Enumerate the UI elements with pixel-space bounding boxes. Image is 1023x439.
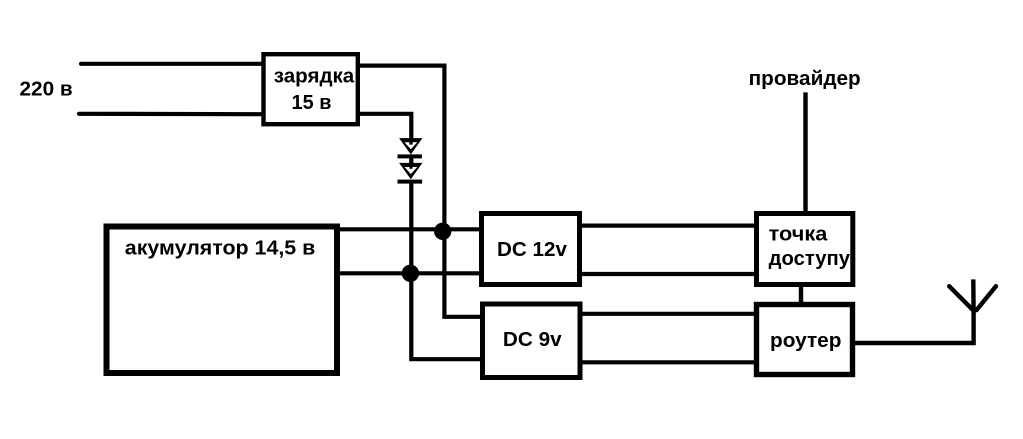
svg-text:точка: точка	[769, 224, 829, 246]
block U1 зарядка 15 в	[264, 54, 358, 124]
wire провайдер down to access point	[803, 92, 807, 213]
wire diode rail down to DC 9v bottom input	[411, 180, 483, 359]
svg-text:220 в: 220 в	[20, 78, 73, 100]
svg-text:провайдер: провайдер	[749, 68, 861, 90]
svg-text:15 в: 15 в	[292, 92, 332, 114]
block U3 DC 9v	[483, 304, 581, 378]
svg-text:роутер: роутер	[770, 330, 841, 352]
junction dot on +rail	[434, 223, 451, 240]
wire DC 9v to router bottom	[578, 360, 756, 364]
diode D1	[398, 138, 423, 158]
block BT1 акумулятор 14,5 в	[107, 227, 338, 374]
wire DC 9v to router top	[578, 312, 756, 316]
svg-text:акумулятор 14,5 в: акумулятор 14,5 в	[125, 238, 315, 260]
wire between diode D1 and diode D2	[409, 156, 413, 169]
wire access point to router	[799, 285, 803, 304]
svg-text:доступу: доступу	[769, 248, 851, 270]
wire charger top output right and down to +rail	[357, 66, 444, 233]
diode D2	[398, 163, 423, 184]
svg-text:DC 12v: DC 12v	[497, 239, 568, 261]
wire +rail down to DC 9v top input	[444, 229, 482, 317]
wire DC 12v to access point top	[578, 224, 756, 228]
junction dot on diode rail	[402, 265, 419, 282]
svg-text:DC 9v: DC 9v	[503, 329, 563, 351]
wire battery bottom output to DC 12v	[337, 271, 482, 275]
wire DC 12v to access point bottom	[578, 272, 756, 276]
wire battery top output to DC 12v	[337, 227, 481, 231]
wire 220v top to charger	[81, 62, 263, 66]
svg-text:зарядка: зарядка	[274, 65, 355, 87]
block U4 точка доступу	[757, 214, 853, 285]
wire 220v bottom to charger	[79, 112, 263, 117]
wire router to antenna	[853, 311, 974, 343]
wire charger bottom output right and down to diode D1	[357, 114, 411, 144]
block U2 DC 12v	[482, 214, 580, 285]
antenna E1	[949, 279, 996, 312]
block U5 роутер	[757, 305, 853, 375]
